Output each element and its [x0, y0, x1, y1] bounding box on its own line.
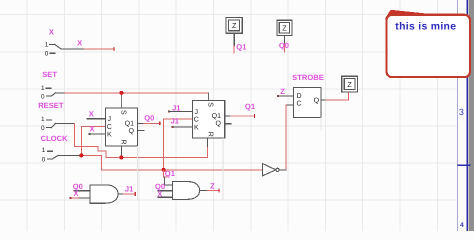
- svg-text:C: C: [296, 101, 301, 108]
- wire G1 input2 net X: [69, 197, 90, 199]
- svg-text:SET: SET: [42, 70, 57, 79]
- svg-text:1: 1: [42, 147, 46, 154]
- svg-text:Z: Z: [210, 182, 215, 191]
- switch X: [45, 28, 61, 58]
- svg-text:C: C: [194, 117, 199, 124]
- LED display Z3: [342, 76, 358, 92]
- wire FF1 K input net X: [89, 133, 106, 135]
- svg-text:Z: Z: [347, 80, 352, 89]
- svg-text:X: X: [77, 39, 82, 48]
- flip-flop U1 JK FF1: [106, 108, 138, 146]
- wire G1 input1 net Q0: [74, 190, 91, 192]
- inverter U4 clock: [263, 164, 280, 176]
- svg-text:Q0: Q0: [144, 114, 154, 123]
- svg-text:J1: J1: [172, 103, 181, 112]
- svg-text:Q1: Q1: [125, 121, 134, 128]
- wire G2 input2 net Q0: [157, 190, 172, 192]
- wire ghost under STROBE: [320, 118, 322, 132]
- wire STROBE D input net Z: [277, 95, 293, 97]
- svg-text:Q1: Q1: [236, 43, 247, 52]
- AND gate G2: [172, 182, 199, 200]
- wire FF2 J input net J1: [168, 111, 193, 113]
- AND gate G1: [90, 185, 118, 203]
- wire RESET net: [55, 123, 207, 157]
- svg-text:STROBE: STROBE: [292, 73, 324, 82]
- svg-text:S: S: [207, 102, 214, 107]
- svg-text:RESET: RESET: [38, 101, 64, 110]
- svg-text:Q: Q: [216, 120, 222, 127]
- svg-text:X: X: [49, 28, 54, 37]
- wire ghost under FF1: [137, 146, 139, 200]
- svg-text:4: 4: [460, 222, 464, 229]
- switch CLOCK: [41, 134, 69, 164]
- wire Q1 tap to AND2 top input: [164, 170, 173, 185]
- wire display Z2 to net Q0: [283, 36, 285, 53]
- wire FF1 Q output stub: [138, 129, 144, 131]
- svg-text:C: C: [107, 124, 112, 131]
- wire FF1 Q1 output net Q0: [138, 122, 161, 125]
- svg-text:X: X: [89, 124, 94, 133]
- svg-text:0: 0: [41, 125, 45, 132]
- svg-text:Q1: Q1: [212, 113, 221, 120]
- wire G1 output net J1: [118, 193, 136, 196]
- svg-text:Q: Q: [129, 128, 135, 135]
- svg-text:this is mine: this is mine: [395, 21, 456, 32]
- svg-text:Z: Z: [282, 24, 287, 33]
- wire STROBE C input from inverter: [279, 105, 294, 170]
- node CLOCK junction: [79, 153, 83, 157]
- wire FF2 K input net J1: [171, 126, 192, 128]
- svg-text:J1: J1: [171, 117, 180, 126]
- svg-text:0: 0: [45, 51, 49, 58]
- svg-text:0: 0: [42, 156, 46, 163]
- ruler page edge line: [466, 0, 468, 231]
- wire STROBE Q output to display Z3: [321, 92, 349, 100]
- svg-text:Q: Q: [314, 98, 320, 105]
- LED display Z2: [277, 20, 292, 35]
- svg-text:CLOCK: CLOCK: [41, 134, 69, 143]
- svg-text:J: J: [195, 109, 199, 116]
- svg-text:R: R: [119, 140, 126, 145]
- svg-text:X: X: [89, 109, 94, 118]
- wire FF2 Q1 output net Q1: [225, 115, 255, 118]
- wire X switch output: [61, 48, 115, 51]
- right ruler: [458, 0, 474, 231]
- wire ghost under FF2: [222, 138, 224, 200]
- wire FF1 J input net X: [86, 118, 105, 120]
- svg-text:X: X: [73, 189, 78, 198]
- svg-text:R: R: [206, 132, 213, 137]
- wire G2 output net Z: [200, 189, 220, 192]
- ruler gray margin: [468, 0, 474, 231]
- wire G2 input3 net X: [157, 196, 172, 198]
- switch SET: [41, 70, 57, 100]
- svg-text:J: J: [108, 116, 112, 123]
- node RESET junction R pin FF1: [119, 155, 123, 159]
- svg-text:1: 1: [45, 41, 49, 48]
- svg-text:1: 1: [41, 85, 45, 92]
- svg-text:S: S: [120, 110, 127, 115]
- svg-text:0: 0: [41, 94, 45, 101]
- wire SET net: [55, 93, 208, 108]
- LED display Z1: [226, 18, 242, 34]
- flip-flop U2 JK FF2: [193, 100, 225, 138]
- svg-text:J1: J1: [125, 185, 134, 194]
- svg-text:3: 3: [459, 107, 464, 117]
- svg-text:D: D: [296, 93, 301, 100]
- svg-text:Q1: Q1: [165, 169, 176, 178]
- ruler inner line: [457, 0, 459, 231]
- svg-text:Z: Z: [232, 21, 237, 30]
- svg-text:K: K: [107, 132, 112, 139]
- node SET junction: [119, 91, 123, 95]
- switch RESET: [38, 101, 64, 132]
- wire FF2 Q output stub: [225, 123, 231, 125]
- node clock rail junction: [162, 168, 166, 172]
- note this is mine: [385, 10, 470, 77]
- ruler tick: [458, 164, 471, 166]
- svg-text:K: K: [194, 124, 199, 131]
- svg-text:1: 1: [41, 116, 45, 123]
- svg-text:Q1: Q1: [245, 102, 256, 111]
- flip-flop U3 D STROBE: [294, 87, 322, 117]
- svg-text:X: X: [157, 189, 162, 198]
- wire display Z1 to net Q1: [233, 33, 235, 53]
- svg-text:Z: Z: [280, 87, 285, 96]
- svg-text:Q0: Q0: [279, 41, 289, 50]
- wire CLOCK net: [58, 119, 263, 170]
